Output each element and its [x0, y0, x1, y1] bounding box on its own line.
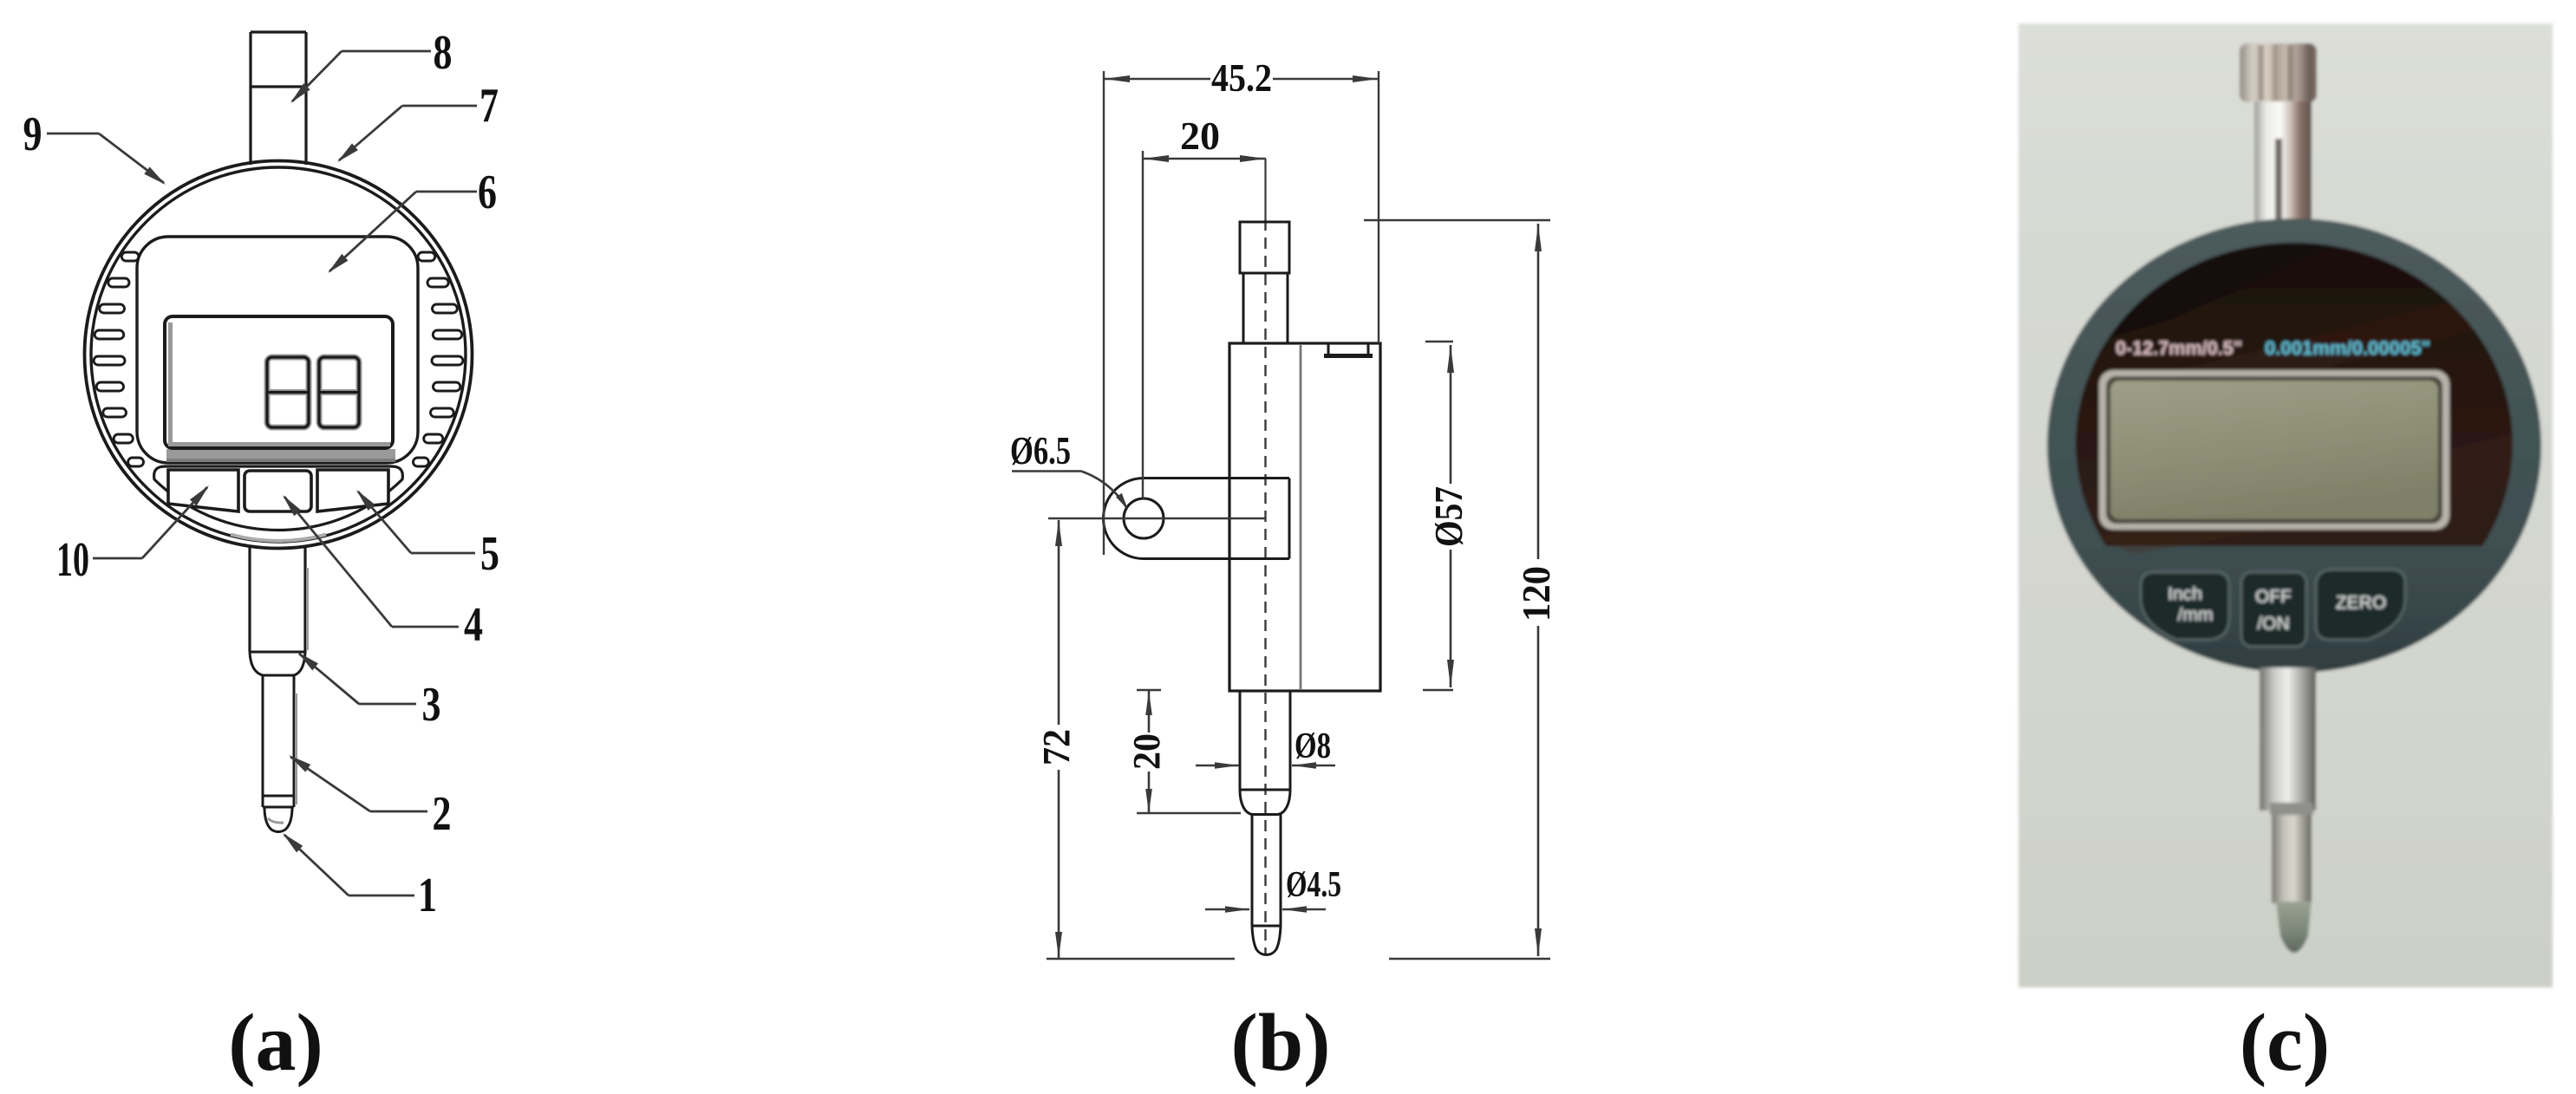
contact ball tip (part 1) — [263, 807, 294, 832]
leader line 3 — [297, 652, 416, 704]
thin measuring rod (b) — [1252, 814, 1281, 926]
lug center line — [1048, 518, 1265, 519]
svg-text:7: 7 — [479, 79, 499, 133]
svg-text:5: 5 — [480, 527, 499, 581]
knurl grip ticks left side — [94, 252, 143, 466]
leader line 4 — [283, 495, 459, 627]
svg-text:/mm: /mm — [2178, 605, 2214, 625]
svg-text:72: 72 — [1035, 729, 1078, 765]
ball tip (b) — [1252, 926, 1281, 954]
svg-text:120: 120 — [1514, 566, 1558, 622]
dimension 72 — [1035, 520, 1078, 958]
svg-text:8: 8 — [434, 26, 453, 80]
face plate panel (part 6) — [137, 237, 418, 463]
svg-text:ZERO: ZERO — [2336, 593, 2386, 613]
top stem (part 8) — [251, 32, 306, 166]
dimension 45.2 — [1104, 55, 1379, 555]
button inch/mm photo — [2141, 572, 2229, 640]
bezel inner circle (part 7 rim) — [91, 167, 466, 542]
leader line 10 — [93, 485, 209, 558]
leader line 1 — [283, 833, 414, 895]
bottom extension line — [1047, 958, 1235, 960]
svg-text:Ø57: Ø57 — [1426, 486, 1471, 547]
svg-text:2: 2 — [433, 787, 452, 841]
photo background — [2018, 23, 2553, 987]
stem (b) — [1243, 273, 1288, 343]
leader line 7 — [337, 106, 477, 162]
svg-text:3: 3 — [422, 678, 441, 732]
dimension diameter 4.5 — [1205, 865, 1341, 913]
svg-text:4: 4 — [464, 598, 483, 652]
svg-text:(b): (b) — [1231, 998, 1331, 1088]
leader line 5 — [356, 490, 475, 553]
LCD window — [165, 316, 393, 448]
svg-text:Ø8: Ø8 — [1295, 726, 1331, 766]
stem cap (b) — [1240, 222, 1289, 273]
left button (part 10) — [168, 470, 238, 511]
dimension diameter 57 — [1423, 342, 1471, 690]
lower spindle photo — [2260, 667, 2316, 811]
spindle collar photo — [2272, 808, 2312, 903]
button off/on photo — [2241, 572, 2306, 647]
knurled cap photo — [2240, 43, 2317, 102]
button zero photo — [2316, 570, 2405, 640]
center button (part 4) — [245, 471, 311, 511]
dashed centerline — [1264, 159, 1266, 219]
leader line 6 — [328, 192, 477, 273]
LCD digit 8 (left) — [267, 357, 309, 427]
LCD photo — [2099, 370, 2449, 530]
gauge body photo — [2047, 218, 2541, 673]
bezel outer circle (part 9) — [85, 161, 473, 549]
gauge body rectangle (b) — [1229, 343, 1380, 691]
lower stem tube (part 3) — [250, 546, 308, 675]
LCD digit 8 (right) — [319, 357, 359, 427]
panel (c): photograph of digital indicator — [2018, 23, 2553, 987]
svg-text:Ø4.5: Ø4.5 — [1286, 865, 1341, 905]
svg-text:20: 20 — [1125, 733, 1168, 770]
label diameter 6.5 with leader — [1010, 428, 1128, 510]
right button (part 5) — [317, 470, 388, 511]
svg-text:10: 10 — [56, 533, 89, 587]
svg-text:6: 6 — [478, 166, 497, 219]
svg-text:9: 9 — [23, 107, 42, 161]
svg-text:(a): (a) — [228, 998, 323, 1088]
svg-text:(c): (c) — [2240, 998, 2330, 1088]
svg-text:1: 1 — [418, 869, 437, 922]
svg-text:/ON: /ON — [2257, 614, 2289, 634]
clamp notch top right — [1324, 343, 1373, 356]
mounting lug with ear — [1104, 479, 1290, 559]
panel (b): dimensioned engineering drawing — [1010, 55, 1558, 1088]
dimension 120 — [1364, 220, 1558, 959]
svg-text:20: 20 — [1180, 114, 1220, 158]
upper stem photo — [2254, 101, 2312, 223]
leader line 2 — [289, 755, 427, 811]
svg-text:Inch: Inch — [2168, 584, 2202, 604]
dimension 20 top — [1143, 114, 1266, 498]
LCD window shadow — [166, 449, 395, 459]
panel (a): labeled drawing of digital dial indicator — [23, 26, 500, 1088]
dimension 20 lower — [1125, 690, 1241, 813]
svg-text:OFF: OFF — [2255, 587, 2292, 607]
spindle below body (b) — [1240, 691, 1290, 815]
contact tip photo — [2276, 902, 2312, 953]
dimension diameter 8 — [1196, 726, 1335, 769]
leader line 9 — [47, 133, 166, 185]
spindle rod (part 2) — [263, 675, 297, 807]
svg-text:45.2: 45.2 — [1211, 55, 1272, 100]
button band — [154, 466, 403, 541]
svg-text:Ø6.5: Ø6.5 — [1010, 428, 1071, 472]
knurl grip ticks right side — [414, 252, 463, 466]
svg-text:0.001mm/0.00005": 0.001mm/0.00005" — [2265, 337, 2430, 359]
lug hole circle — [1124, 498, 1164, 538]
svg-text:0-12.7mm/0.5": 0-12.7mm/0.5" — [2116, 337, 2242, 359]
leader line 8 — [290, 51, 431, 103]
